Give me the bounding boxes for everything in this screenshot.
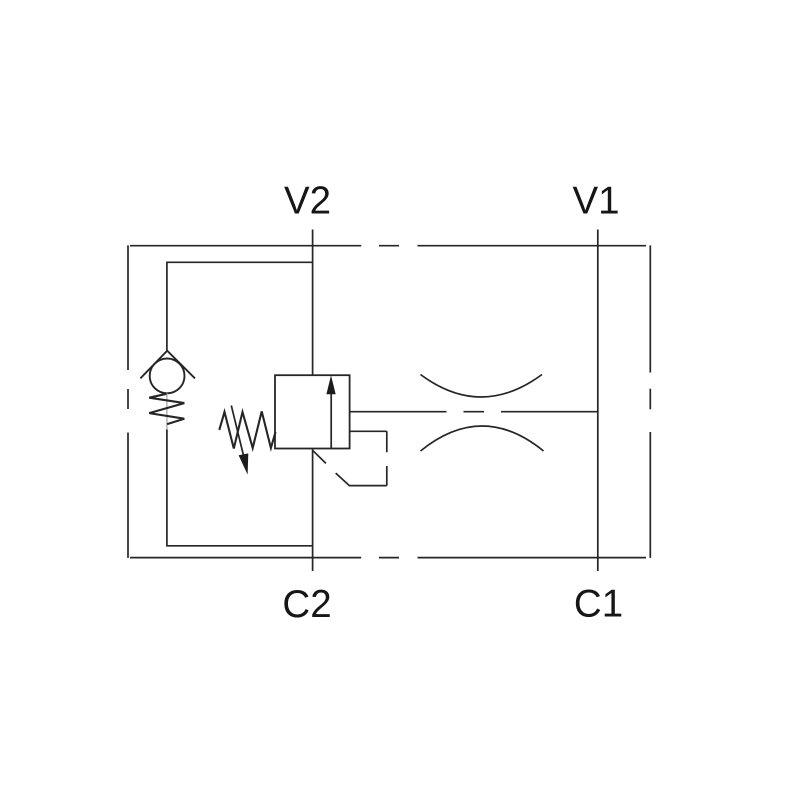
svg-text:V2: V2 bbox=[284, 180, 331, 223]
svg-text:C1: C1 bbox=[574, 583, 623, 626]
svg-text:V1: V1 bbox=[572, 180, 619, 223]
svg-text:C2: C2 bbox=[282, 583, 331, 626]
